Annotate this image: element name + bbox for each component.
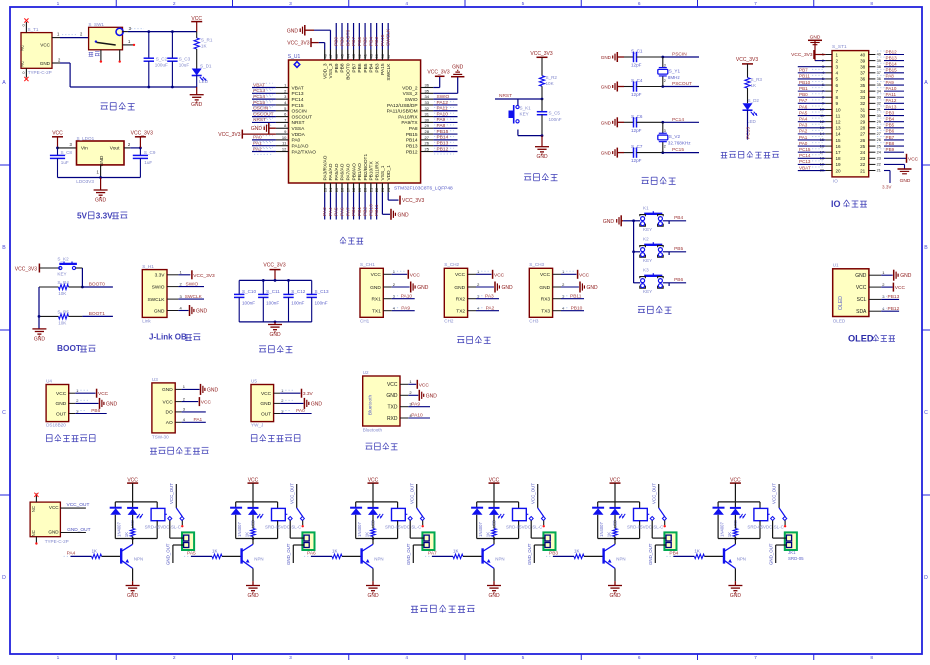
svg-text:RX1: RX1 [371,297,381,303]
svg-text:6: 6 [836,83,839,88]
svg-text:PA0: PA0 [292,138,301,144]
svg-text:7: 7 [754,655,757,660]
svg-text:10K: 10K [546,81,555,86]
svg-text:NPN: NPN [737,556,746,561]
svg-text:LED: LED [199,79,209,84]
svg-text:PB11/RX: PB11/RX [374,160,380,180]
svg-text:PB10: PB10 [799,80,811,85]
power VCC_3V3 [736,57,758,78]
svg-text:1K: 1K [332,549,337,554]
svg-text:VCC_OUT: VCC_OUT [651,483,656,504]
svg-text:GND: GND [287,28,299,34]
svg-text:PB13: PB13 [437,141,449,147]
ground at VSSA pin 8 [251,123,276,134]
svg-text:S_LDO1: S_LDO1 [77,136,95,141]
svg-text:PA3: PA3 [322,207,328,216]
svg-text:30: 30 [425,117,430,122]
title 继电器控制电路 [411,605,474,613]
wire relay top rail [356,501,398,503]
ground at U3 pin 1 [182,384,219,395]
svg-text:Vout: Vout [110,146,120,152]
terminal block output [664,532,676,550]
svg-text:34: 34 [860,89,866,94]
net PB4 [634,215,687,224]
ground for keys [603,215,623,226]
svg-text:GND: GND [34,336,46,342]
wire contact to terminal [170,521,184,539]
resistor 1K LED series [245,515,256,539]
svg-text:GND: GND [601,120,612,125]
connector S_CH2 [444,262,480,324]
svg-text:VCC_3V3: VCC_3V3 [287,41,309,47]
svg-text:12pF: 12pF [631,92,642,97]
svg-text:1K: 1K [245,532,250,537]
svg-text:1K: 1K [694,549,699,554]
power VCC relay branch PB4 [730,478,741,502]
left IO net wires and labels [798,67,826,171]
relay coil SRD-05VDC-SL-C [506,502,542,539]
capacitor S_C13 100nF [307,280,329,322]
svg-text:GND: GND [106,401,118,407]
svg-text:CH3: CH3 [529,319,539,324]
svg-text:YW_J: YW_J [251,423,263,428]
svg-text:1N4007: 1N4007 [599,521,604,536]
svg-text:VSS_3: VSS_3 [328,63,334,78]
svg-text:47: 47 [328,53,333,58]
svg-text:S_C6: S_C6 [631,114,643,119]
svg-text:38: 38 [877,65,881,69]
svg-text:OUT: OUT [56,411,66,417]
svg-text:7: 7 [836,89,839,94]
svg-text:B: B [2,245,6,251]
svg-text:STM32F103C8T6_LQFP48: STM32F103C8T6_LQFP48 [394,185,453,191]
svg-text:NC: NC [31,530,36,536]
svg-text:15: 15 [334,187,339,192]
svg-text:OLED: OLED [833,319,846,324]
svg-text:OSCOUT: OSCOUT [292,114,313,120]
svg-text:PA2: PA2 [253,146,262,152]
ground at U4 pin 2 [75,398,117,409]
wire contact to terminal [773,521,787,539]
net label PA6 input [304,550,332,556]
ground [608,581,622,599]
TYPE-C-2P bottom pin no-connect [35,537,37,545]
svg-text:SRD-05VDC-SL-C: SRD-05VDC-SL-C [506,525,542,530]
svg-text:GND_OUT: GND_OUT [286,543,291,565]
svg-text:GND_OUT: GND_OUT [166,543,171,565]
net label PB4 input [666,550,694,556]
svg-text:GND: GND [601,151,612,156]
svg-text:PA10: PA10 [437,111,449,117]
ground at U2 pin 2 [408,390,437,401]
svg-text:PB3: PB3 [886,110,895,115]
svg-text:2: 2 [173,1,176,7]
display U1 OLED [833,262,886,323]
ground at S_CH3 pin 2 [561,282,598,293]
svg-text:PB13: PB13 [406,144,418,150]
svg-text:S_H1: S_H1 [142,264,154,269]
svg-text:SRD-05VDC-SL-C: SRD-05VDC-SL-C [747,525,783,530]
svg-text:3: 3 [289,655,292,660]
wire key to cap bottom junction [518,134,543,137]
wire VCC to regulator Vin pin 3 [58,142,77,148]
svg-text:PA9: PA9 [437,117,446,123]
svg-text:PA5: PA5 [799,110,808,115]
svg-text:44: 44 [345,53,350,58]
svg-text:1uF: 1uF [61,160,69,165]
svg-text:1N4007: 1N4007 [357,521,362,536]
svg-text:NPN: NPN [495,556,504,561]
power VCC relay branch PA5 [248,478,259,502]
svg-text:PB3: PB3 [549,550,558,556]
switch label 开关 [89,52,100,57]
MCU S_U1 STM32F103C8T6_LQFP48 [288,54,453,192]
svg-text:PA1/AO: PA1/AO [292,144,309,150]
relay contact pole VCC_OUT [772,483,779,508]
power VCC_3V3 [263,263,285,281]
net BOOT1 [82,311,113,317]
svg-text:PA8: PA8 [437,123,446,129]
relay coil SRD-05VDC-SL-C [385,502,421,539]
svg-text:PA7: PA7 [428,550,437,556]
svg-text:GND: GND [452,64,464,70]
svg-text:NPN: NPN [616,556,625,561]
relay contact pole VCC_OUT [409,483,416,508]
svg-text:TYPE-C-2P: TYPE-C-2P [28,70,52,75]
svg-text:GND_OUT: GND_OUT [406,543,411,565]
svg-text:PB0: PB0 [351,207,357,216]
svg-text:PC13: PC13 [799,159,811,164]
svg-text:A: A [924,80,928,86]
svg-text:KEY: KEY [643,227,652,232]
net PB5 [634,246,687,255]
svg-text:VCC: VCC [49,505,59,510]
svg-text:PA11: PA11 [886,92,897,97]
svg-text:NRST: NRST [499,93,512,99]
wire relay bottom rail [598,537,640,540]
svg-text:SWIO: SWIO [437,94,450,100]
ground [246,581,260,599]
wire terminal to GND_OUT [406,543,424,565]
svg-text:S_D2: S_D2 [748,98,760,103]
svg-text:S_R5: S_R5 [57,309,69,314]
svg-text:1N4007: 1N4007 [720,521,725,536]
svg-text:16: 16 [836,144,842,149]
svg-text:13: 13 [322,187,327,192]
svg-text:GND: GND [311,401,323,407]
svg-text:32: 32 [860,101,866,106]
ground [126,581,140,599]
transistor NPN [483,539,505,582]
svg-text:3.3V: 3.3V [155,273,166,279]
terminal labels JK1 SRD-05 [788,550,804,561]
svg-text:PA7: PA7 [345,207,351,216]
left net wires and labels [252,82,276,154]
svg-text:PA12/USB/DP: PA12/USB/DP [387,103,418,109]
svg-text:21: 21 [877,169,881,173]
svg-text:C: C [2,410,6,416]
svg-text:PB11: PB11 [570,293,582,299]
svg-text:PA6: PA6 [799,104,808,109]
svg-text:D: D [924,575,928,581]
svg-text:S_C11: S_C11 [266,289,280,294]
svg-text:S_C12: S_C12 [291,289,305,294]
svg-text:26: 26 [425,141,430,146]
svg-text:36: 36 [877,77,881,81]
power VCC_3V3 at J-Link pin 1 [178,270,215,279]
power VCC [191,16,202,32]
wire relay bottom rail [115,537,157,540]
net label PA5 input [184,550,212,556]
svg-text:GND: GND [536,154,548,160]
capacitor S_C5 100nF [537,99,562,136]
svg-text:41: 41 [363,53,368,58]
svg-text:GND: GND [417,285,429,291]
svg-text:S_C4: S_C4 [631,78,643,83]
svg-text:GND: GND [900,178,911,184]
relay coil SRD-05VDC-SL-C [627,502,663,539]
svg-text:PB14: PB14 [886,62,898,67]
svg-text:40: 40 [877,53,881,57]
key K2 [640,237,663,263]
header S_H1 J-Link OB [142,264,182,324]
svg-text:21: 21 [368,187,373,192]
wire key to BOOT0 node [76,268,84,288]
svg-text:26: 26 [877,138,881,142]
svg-text:VCC: VCC [261,391,272,397]
svg-text:43: 43 [351,53,356,58]
svg-text:PA7/AO: PA7/AO [345,163,351,180]
power VCC relay branch PB3 [610,478,621,502]
svg-text:PB10: PB10 [571,305,583,311]
svg-text:3.3V: 3.3V [303,391,314,397]
svg-text:S_K1: S_K1 [520,106,532,111]
resistor S_R3 1K [745,77,763,103]
svg-text:PB5: PB5 [674,246,683,252]
svg-text:PA15: PA15 [380,63,386,75]
svg-text:PA3: PA3 [485,293,494,299]
net PA10 [408,413,430,419]
svg-text:19: 19 [357,187,362,192]
LED relay indicator [610,502,626,528]
svg-text:S_CH3: S_CH3 [529,262,544,267]
svg-text:GND: GND [539,285,550,291]
S_U1 top pins 37-48 stubs and numbers [322,50,390,61]
diode 1N4007 [230,502,242,539]
diode 1N4007 [592,502,604,539]
svg-text:PSCIN: PSCIN [672,52,687,58]
svg-text:PB9: PB9 [334,63,340,72]
svg-text:GND: GND [48,529,59,534]
svg-text:PC15: PC15 [799,147,811,152]
svg-text:GND: GND [99,155,105,166]
svg-text:5: 5 [522,1,525,7]
svg-text:4: 4 [836,71,839,76]
S_SW1 pin 1 stub no-connect [123,39,136,46]
svg-text:PA4: PA4 [67,550,76,556]
resistor S_R2 10K [539,75,557,99]
svg-text:S_ST1: S_ST1 [832,44,847,50]
svg-text:SWCLK: SWCLK [147,297,165,303]
svg-text:PB4: PB4 [368,37,374,46]
relay contacts [768,508,787,528]
svg-text:24: 24 [860,150,866,155]
svg-text:100nF: 100nF [291,301,304,306]
svg-text:1: 1 [57,1,60,7]
capacitor S_C3 10uF [167,32,190,87]
svg-text:NRST: NRST [292,120,305,126]
wire relay top rail [115,501,157,503]
svg-text:26: 26 [860,138,866,143]
power VCC relay branch PA7 [489,478,500,502]
resistor 1K LED series [365,515,376,539]
wire terminal to GND_OUT [286,543,304,565]
svg-text:16: 16 [340,187,345,192]
svg-text:GND: GND [154,308,165,314]
svg-text:GND: GND [269,332,281,338]
svg-text:PA12: PA12 [886,98,897,103]
svg-text:28: 28 [877,126,881,130]
resistor S_R1 1K [194,32,213,49]
svg-text:PB8: PB8 [886,141,895,146]
svg-text:27: 27 [877,132,881,136]
svg-text:PB4: PB4 [674,215,683,221]
svg-text:RX3: RX3 [541,297,551,303]
relay coil SRD-05VDC-SL-C [145,502,181,539]
net PB11 [561,293,584,299]
svg-text:PA1: PA1 [253,141,262,147]
wire GND return rail [52,58,197,89]
terminal block output [785,532,797,550]
svg-text:S_C10: S_C10 [242,289,256,294]
svg-text:OLED: OLED [838,296,844,310]
svg-text:U4: U4 [46,378,52,383]
power VCC at IO pin 23 [884,154,919,163]
svg-text:1K: 1K [574,549,579,554]
svg-text:PB0/AO: PB0/AO [351,163,357,181]
transistor NPN [242,539,264,582]
relay contact pole VCC_OUT [169,483,176,508]
svg-text:S_R3: S_R3 [751,77,763,82]
svg-text:PB7: PB7 [799,68,808,73]
svg-text:AO: AO [166,420,173,426]
resistor 1K base [453,549,483,559]
svg-text:100nF: 100nF [266,301,279,306]
switch S_SW1 [88,22,123,50]
svg-text:PA11/USB/DM: PA11/USB/DM [387,109,418,115]
svg-text:100nF: 100nF [549,117,562,122]
svg-text:U1: U1 [833,262,839,267]
ground [487,581,501,599]
relay contact pole VCC_OUT [651,483,658,508]
svg-text:S_R2: S_R2 [546,75,558,80]
svg-text:36: 36 [425,83,430,88]
svg-text:2: 2 [836,58,839,63]
svg-text:PB5: PB5 [363,37,369,46]
svg-text:PB3: PB3 [374,63,380,72]
svg-text:VCC_OUT: VCC_OUT [409,483,414,504]
svg-text:1K: 1K [486,532,491,537]
svg-text:GND: GND [398,212,410,218]
svg-text:VSS_1: VSS_1 [380,165,386,180]
wire contact to terminal [531,521,545,539]
net label PC13 [745,110,751,139]
svg-text:PA12: PA12 [437,100,449,106]
svg-text:GND_OUT: GND_OUT [527,543,532,565]
power VCC input [52,130,63,148]
svg-text:RXD: RXD [387,416,398,422]
svg-text:12pF: 12pF [631,128,642,133]
svg-text:VCC_3V3: VCC_3V3 [218,132,240,138]
svg-text:VCC: VCC [419,382,430,388]
svg-text:TSW-30: TSW-30 [152,435,169,440]
svg-text:PB7: PB7 [351,63,357,72]
svg-text:TX1: TX1 [372,309,381,315]
svg-text:10K: 10K [58,320,67,325]
power VCC at S_CH3 pin 1 [561,270,590,279]
svg-text:S_Y1: S_Y1 [669,68,681,73]
svg-text:S_T1: S_T1 [28,27,39,32]
svg-text:NC: NC [20,45,25,51]
svg-text:100nF: 100nF [315,301,328,306]
svg-text:PA10: PA10 [401,293,413,299]
top net wires and vertical labels [334,23,392,50]
transistor NPN [724,539,746,582]
relay contacts [285,508,304,528]
svg-text:GND: GND [191,102,203,108]
svg-text:1K: 1K [453,549,458,554]
relay contacts [526,508,545,528]
ground at VSS_3 pin 47 [287,25,331,50]
svg-text:PC14: PC14 [672,117,684,123]
svg-text:PB1: PB1 [799,86,808,91]
title 复位电路 [524,173,557,180]
svg-text:VCC_3V3: VCC_3V3 [193,273,215,279]
net BOOT0 [82,282,113,288]
svg-text:VCC: VCC [371,272,382,278]
svg-text:GND: GND [609,593,621,599]
wire relay bottom rail [718,537,760,540]
svg-text:PC15: PC15 [672,147,684,153]
ground at OLED pin 1 [881,270,912,281]
svg-text:S_K2: S_K2 [57,257,69,262]
title 串口电路 [457,336,490,343]
ground at VSS_1 pin 23 [382,192,409,219]
svg-text:GND: GND [900,273,912,279]
net VCC_OUT [60,502,89,508]
capacitor S_C11 100nF [258,280,280,322]
svg-text:PA5: PA5 [334,207,340,216]
svg-text:3: 3 [289,1,292,7]
wire contact to terminal [290,521,304,539]
svg-text:9: 9 [836,101,839,106]
svg-text:PB12: PB12 [406,149,418,155]
svg-text:GND: GND [162,387,173,393]
svg-text:PA8: PA8 [886,74,895,79]
filter top rail wire [239,279,312,282]
svg-text:12: 12 [836,119,842,124]
svg-text:PA6: PA6 [340,207,346,216]
svg-text:S_C8: S_C8 [61,150,73,155]
svg-text:BOOT1: BOOT1 [89,311,106,317]
svg-text:PB4: PB4 [669,550,678,556]
svg-text:PA7: PA7 [799,98,808,103]
svg-text:1N4007: 1N4007 [478,521,483,536]
power VCC_3V3 [131,130,153,148]
module U4 DS18B20 [46,378,79,427]
net SWCLK [178,294,204,300]
svg-text:1K: 1K [212,549,217,554]
